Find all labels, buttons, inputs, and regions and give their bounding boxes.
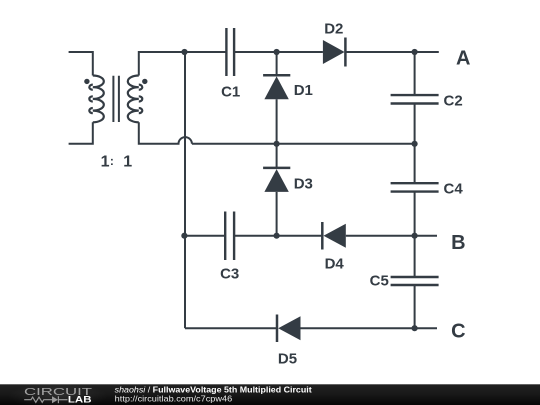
svg-text:http://circuitlab.com/c7cpw46: http://circuitlab.com/c7cpw46	[115, 394, 233, 404]
wire row B: left dot to C3	[184, 235, 225, 237]
svg-text:A: A	[456, 47, 470, 69]
svg-text:C: C	[451, 320, 465, 342]
right rail segment A to C2	[414, 52, 416, 95]
svg-text:D1: D1	[294, 82, 313, 99]
wire D4 to right rail and node B stub	[346, 235, 437, 237]
wire primary top lead	[69, 52, 93, 76]
wire row2 middle to right rail	[276, 143, 414, 145]
diode D2	[323, 38, 346, 67]
footer bar	[0, 383, 540, 405]
svg-text:C2: C2	[444, 93, 463, 110]
right rail row B to C5	[414, 236, 416, 277]
wire D5 to right rail and node C stub	[301, 327, 438, 329]
junction node A	[412, 49, 418, 55]
junction node C	[412, 325, 418, 331]
svg-text:C5: C5	[370, 273, 389, 290]
junction row B left	[181, 233, 187, 239]
junction row2 middle	[274, 141, 280, 147]
wire secondary top lead to node dot	[139, 52, 185, 76]
capacitor C3	[225, 212, 234, 261]
diode D5	[277, 315, 301, 343]
transformer dot primary	[84, 79, 89, 84]
svg-text:B: B	[451, 232, 465, 254]
junction top-middle	[274, 49, 280, 55]
svg-text:1: 1	[123, 153, 132, 170]
wire bottom row: left corner to D5	[185, 327, 277, 329]
capacitor C5	[391, 277, 439, 285]
diode D1	[263, 52, 290, 144]
svg-text:D5: D5	[278, 351, 297, 368]
wire C1 to middle rail	[234, 51, 323, 53]
transformer core	[113, 76, 119, 122]
junction node B	[412, 233, 418, 239]
right rail C2 to row2	[414, 104, 416, 144]
svg-text:C3: C3	[220, 265, 239, 282]
wire C3 to middle dot	[234, 235, 322, 237]
transformer dot secondary	[142, 79, 147, 84]
svg-text:C4: C4	[444, 181, 464, 198]
logo resistor zigzag and diode	[24, 396, 67, 403]
svg-text:D4: D4	[325, 255, 345, 272]
wire primary bottom lead	[69, 122, 93, 144]
junction top-left	[181, 49, 187, 55]
diode D4	[322, 222, 346, 250]
svg-text:D3: D3	[294, 176, 313, 193]
svg-text:1: 1	[101, 153, 110, 170]
svg-text::: :	[110, 154, 114, 168]
junction row B middle	[274, 233, 280, 239]
junction row2 right	[412, 141, 418, 147]
left rail top (dot at top wire down to row B)	[184, 52, 186, 236]
right rail row2 to C4	[414, 144, 416, 183]
svg-text:C1: C1	[221, 84, 240, 101]
svg-text:LAB: LAB	[68, 395, 92, 405]
wire top row: dot to C1	[185, 51, 227, 53]
transformer primary winding	[93, 76, 104, 123]
wire D2 to right rail and node A stub	[345, 51, 438, 53]
transformer secondary winding	[128, 76, 139, 123]
capacitor C4	[391, 183, 439, 191]
right rail C5 to bottom row	[414, 285, 416, 328]
wire row2 after hop to middle rail	[192, 143, 276, 145]
svg-text:D2: D2	[324, 20, 343, 37]
wire secondary bottom lead (row2 left, with hop)	[139, 122, 192, 144]
capacitor C2	[391, 95, 439, 103]
diode D3	[263, 144, 290, 236]
left rail lower (row B to bottom row)	[184, 236, 186, 329]
capacitor C1	[226, 28, 234, 76]
right rail C4 to row B	[414, 192, 416, 236]
